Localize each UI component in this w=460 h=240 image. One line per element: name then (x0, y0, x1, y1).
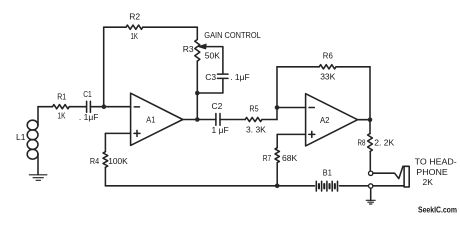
svg-text:R6: R6 (323, 50, 333, 60)
connector: headphone jack plug J1 (404, 166, 409, 187)
wire: ground rail left segment (105, 185, 314, 187)
svg-text:2K: 2K (423, 177, 434, 187)
pin: A2 plus symbol (309, 131, 315, 137)
wire: vertical from junction up to R2 (103, 27, 105, 107)
svg-text:1K: 1K (58, 110, 66, 120)
svg-text:SeekIC.com: SeekIC.com (418, 205, 457, 214)
svg-text:A1: A1 (146, 115, 155, 125)
wire: A1 noninverting input wire (105, 132, 130, 134)
node: A2 output junction (368, 117, 373, 122)
node: R3/C3 junction (195, 91, 200, 96)
potentiometer R3 (195, 40, 200, 62)
svg-text:C1: C1 (83, 89, 92, 99)
svg-text:B1: B1 (323, 167, 332, 177)
wiper arrow of R3 (198, 44, 206, 49)
wire: C2 to R5 (220, 119, 245, 121)
pin: A2 minus symbol (309, 107, 314, 109)
wire: riser up to A2 inverting node (276, 108, 278, 120)
svg-text:68K: 68K (282, 153, 297, 163)
svg-text:GAIN CONTROL: GAIN CONTROL (204, 30, 261, 40)
svg-text:R4: R4 (90, 156, 100, 166)
svg-text:33K: 33K (320, 72, 335, 82)
wire: R8 bottom lead to jack tip terminal (369, 152, 371, 172)
wire: top feedback wire left segment (104, 26, 126, 28)
wire: R1 to C1 (69, 106, 86, 108)
svg-text:R5: R5 (249, 104, 258, 114)
wire: A2 noninverting input wire (277, 133, 305, 135)
capacitor C2 (216, 114, 220, 126)
capacitor C1 (87, 101, 91, 112)
wire: output node to C2 (197, 119, 216, 121)
resistor R5 (245, 117, 262, 121)
wire: tip contact to jack spring (373, 166, 403, 178)
wire: R6 wire right segment (336, 66, 370, 68)
svg-text:C2: C2 (212, 101, 223, 111)
wire: vertical down to R7 (276, 134, 278, 147)
svg-text:3. 3K: 3. 3K (246, 124, 266, 134)
wire: wiper to C3 top (204, 47, 223, 74)
wire: junction down to A1 output wire (196, 93, 198, 120)
resistor R8 (368, 134, 373, 152)
wire: R7 bottom lead to rail (276, 163, 278, 186)
wire: R3 top lead (196, 27, 198, 39)
svg-text:TO HEAD-: TO HEAD- (415, 156, 457, 166)
svg-text:2. 2K: 2. 2K (374, 137, 394, 147)
svg-text:. 1μF: . 1μF (79, 112, 99, 122)
capacitor C3 (218, 74, 229, 78)
ground: under L1 (29, 175, 47, 181)
wire: R6 right lead down to output node (369, 67, 371, 120)
wire: R6 wire left segment (277, 66, 319, 68)
wire: R6 left lead riser (276, 67, 278, 108)
wire: node to A2 minus input (277, 107, 306, 109)
svg-text:R3: R3 (183, 44, 194, 54)
wire: A1 output to node (183, 119, 198, 121)
wire: R3 bottom lead to junction (196, 61, 198, 93)
pin: A1 minus symbol (134, 106, 139, 108)
svg-text:. 1μF: . 1μF (230, 72, 250, 82)
wire: ground rail right of battery (340, 185, 369, 187)
svg-text:1 μF: 1 μF (212, 125, 229, 135)
node: A1 output junction (195, 117, 200, 122)
resistor R2 (126, 25, 143, 29)
inductor L1 (27, 107, 38, 175)
wire: top feedback wire right segment to R3 top (143, 26, 198, 28)
wire: output node down to R8 (369, 120, 371, 134)
op-amp A1 (131, 93, 183, 145)
wire: R4 bottom lead to ground rail (104, 167, 106, 186)
wire: rail from sleeve circle to jack (373, 185, 404, 187)
svg-text:50K: 50K (205, 50, 220, 60)
node: A2 inverting input junction (275, 105, 280, 110)
terminal: jack sleeve contact circle (369, 184, 373, 188)
resistor R6 (319, 65, 336, 69)
wire: A2 output to node (358, 119, 370, 121)
ground: under jack sleeve (366, 188, 375, 204)
svg-text:PHONE: PHONE (416, 167, 448, 177)
pin: A1 plus symbol (134, 130, 140, 136)
resistor R1 (53, 105, 70, 109)
svg-text:C3: C3 (205, 72, 216, 82)
svg-text:L1: L1 (16, 132, 26, 142)
battery B1 (316, 181, 337, 191)
resistor R7 (275, 148, 279, 163)
svg-text:R7: R7 (263, 153, 272, 163)
wire: C1 to A1 inverting input (90, 106, 130, 108)
resistor R4 (103, 152, 108, 168)
svg-text:R2: R2 (129, 12, 140, 22)
svg-text:100K: 100K (108, 156, 128, 166)
svg-text:R1: R1 (57, 91, 66, 101)
node: R7/rail junction (275, 184, 280, 189)
node: junction C1/R2/A1- (102, 104, 107, 109)
wire: input wire from L1 corner to R1 (38, 106, 53, 108)
wire: C3 bottom to junction (197, 79, 223, 93)
svg-text:A2: A2 (320, 115, 330, 125)
svg-text:1K: 1K (131, 31, 139, 41)
terminal: jack tip contact circle (369, 171, 373, 175)
svg-text:R8: R8 (358, 137, 366, 147)
op-amp A2 (306, 94, 358, 146)
wire: R5 to riser (262, 119, 277, 121)
wire: vertical down to R4 (104, 133, 106, 151)
